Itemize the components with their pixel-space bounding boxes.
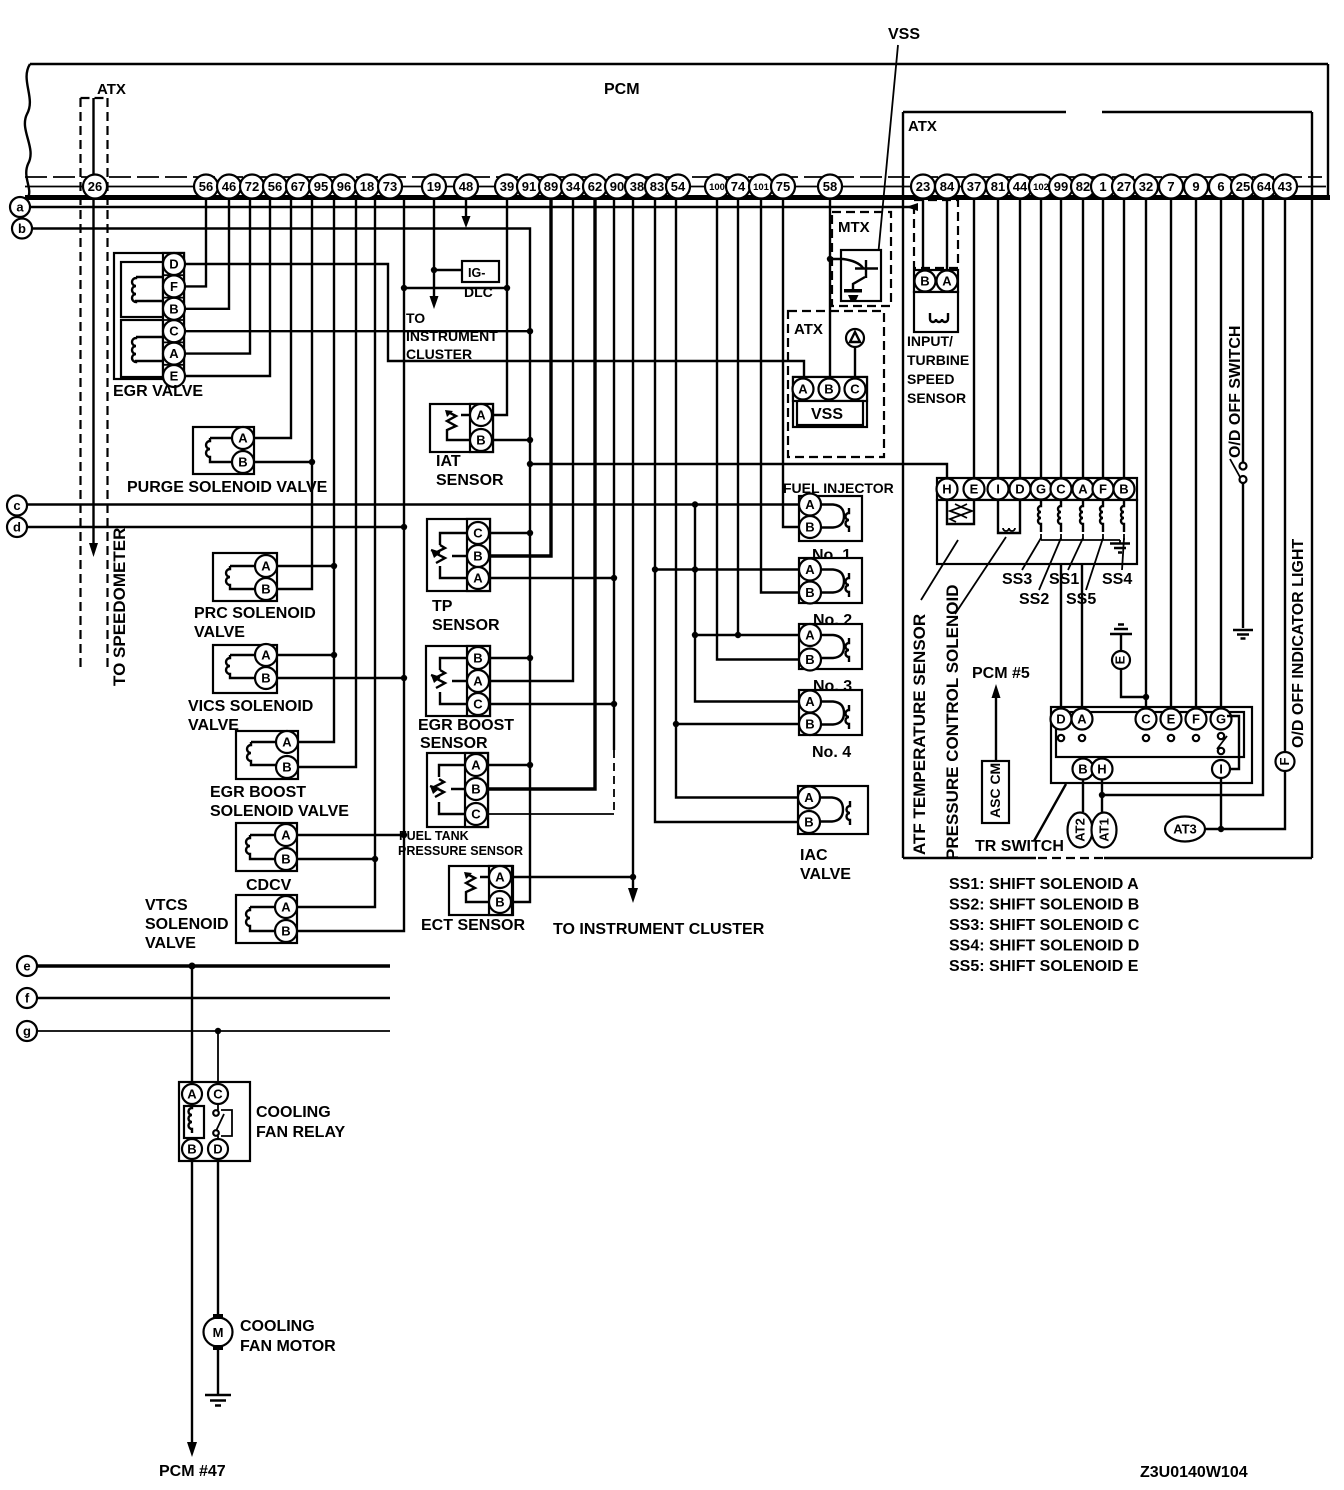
svg-text:46: 46 xyxy=(222,179,236,194)
wire f xyxy=(37,997,390,999)
junction on v530 at 464 xyxy=(527,461,533,467)
svg-text:FUEL TANK: FUEL TANK xyxy=(399,829,469,843)
svg-text:PRC SOLENOID: PRC SOLENOID xyxy=(194,605,316,622)
svg-text:IG-: IG- xyxy=(468,266,485,280)
fuel tank pressure sensor xyxy=(427,753,488,827)
svg-text:B: B xyxy=(473,549,482,564)
junction CDCV B xyxy=(372,856,378,862)
pin 64 xyxy=(1252,175,1276,199)
svg-text:B: B xyxy=(282,760,291,775)
svg-text:AT3: AT3 xyxy=(1173,822,1197,837)
junction inj2 A on v655 xyxy=(652,566,658,572)
pin 44 xyxy=(1008,175,1032,199)
leader SS3 xyxy=(1022,538,1041,570)
svg-text:1: 1 xyxy=(1099,179,1106,194)
svg-text:95: 95 xyxy=(314,179,328,194)
svg-text:A: A xyxy=(169,346,179,361)
svg-text:PURGE SOLENOID VALVE: PURGE SOLENOID VALVE xyxy=(127,479,328,496)
connector g circle xyxy=(17,1021,37,1041)
ground (O/D off switch) xyxy=(1233,630,1253,639)
svg-text:PRESSURE SENSOR: PRESSURE SENSOR xyxy=(398,844,523,858)
wire IAC B to v655 xyxy=(655,199,798,822)
pin 9 xyxy=(1184,175,1208,199)
PCM torn left edge squiggle xyxy=(25,64,31,199)
shift solenoid coil SSe xyxy=(1121,500,1124,532)
svg-text:C: C xyxy=(471,807,481,822)
wire CDCV B xyxy=(297,858,375,860)
IG-DLC box xyxy=(462,261,499,282)
svg-text:EGR BOOST: EGR BOOST xyxy=(418,717,514,734)
wire TR H to AT1 and H-line xyxy=(1102,199,1263,812)
svg-text:MTX: MTX xyxy=(838,219,870,236)
svg-text:73: 73 xyxy=(383,179,397,194)
svg-text:ASC CM: ASC CM xyxy=(987,763,1003,818)
input/turbine speed sensor xyxy=(914,270,958,332)
connector b circle xyxy=(12,219,32,239)
wire v206 pin56 to EGR F xyxy=(184,199,206,286)
wire inj1 B to v783 xyxy=(783,199,799,527)
svg-text:84: 84 xyxy=(940,179,955,194)
bus line mid xyxy=(25,186,1326,188)
svg-text:PRESSURE CONTROL SOLENOID: PRESSURE CONTROL SOLENOID xyxy=(943,585,962,861)
pin 75 xyxy=(771,175,795,199)
connector e circle xyxy=(17,956,37,976)
svg-text:ATX: ATX xyxy=(908,118,937,135)
svg-text:48: 48 xyxy=(459,179,473,194)
wire CDCV A xyxy=(297,834,404,836)
wire pin82 to ATF A xyxy=(1082,199,1084,478)
svg-text:A: A xyxy=(281,828,291,843)
svg-text:VSS: VSS xyxy=(888,26,920,43)
wire relay D to motor xyxy=(217,1159,219,1318)
EGR valve xyxy=(114,253,184,379)
connector c circle xyxy=(7,496,27,516)
pin 100 xyxy=(705,175,729,199)
pin 91 xyxy=(517,175,541,199)
wire EGRB sensor B xyxy=(489,657,530,659)
CDCV xyxy=(236,823,297,871)
svg-text:18: 18 xyxy=(360,179,374,194)
junction PRC A xyxy=(331,563,337,569)
svg-text:26: 26 xyxy=(88,179,102,194)
wire pin27 to ATF B xyxy=(1123,199,1125,478)
shift solenoid common rail to ground xyxy=(1041,534,1124,543)
pin 101 xyxy=(749,175,773,199)
svg-text:A: A xyxy=(805,694,815,709)
junction purge B xyxy=(309,459,315,465)
svg-text:B: B xyxy=(1078,762,1087,777)
ground (indicator E) xyxy=(1110,625,1132,635)
pin 27 xyxy=(1112,175,1136,199)
wire IAT A to v507 xyxy=(492,199,507,415)
svg-text:A: A xyxy=(805,628,815,643)
svg-text:Z3U0140W104: Z3U0140W104 xyxy=(1140,1464,1248,1481)
svg-text:99: 99 xyxy=(1054,179,1068,194)
svg-text:89: 89 xyxy=(544,179,558,194)
EGR boost solenoid valve xyxy=(236,731,298,779)
svg-text:44: 44 xyxy=(1013,179,1028,194)
svg-text:A: A xyxy=(261,559,271,574)
svg-text:9: 9 xyxy=(1192,179,1199,194)
wire v695 injector common xyxy=(695,505,799,702)
svg-text:G: G xyxy=(1036,482,1046,497)
junction CDCV A xyxy=(401,832,407,838)
IAT sensor xyxy=(430,404,493,452)
svg-text:B: B xyxy=(187,1142,196,1157)
pin 82 xyxy=(1071,175,1095,199)
TR switch xyxy=(1051,707,1253,783)
junction EGRB C on v614 xyxy=(611,701,617,707)
cooling fan relay xyxy=(179,1082,250,1161)
svg-text:B: B xyxy=(281,924,290,939)
wire ATF A to TR A xyxy=(1081,564,1083,708)
wire b to vertical 530 xyxy=(32,229,530,903)
svg-text:H: H xyxy=(1097,762,1106,777)
wire inj2 A xyxy=(655,568,799,570)
svg-text:EGR BOOST: EGR BOOST xyxy=(210,784,306,801)
svg-text:e: e xyxy=(23,959,30,974)
AT1 oval xyxy=(1092,813,1117,848)
svg-text:SS1: SS1 xyxy=(1049,571,1079,588)
pin 39 xyxy=(495,175,519,199)
wire VICS B xyxy=(277,677,404,679)
svg-text:7: 7 xyxy=(1167,179,1174,194)
shift solenoid coil SSa xyxy=(1038,500,1041,532)
svg-text:54: 54 xyxy=(671,179,686,194)
svg-text:c: c xyxy=(13,498,20,513)
svg-text:90: 90 xyxy=(610,179,624,194)
svg-text:6: 6 xyxy=(1217,179,1224,194)
svg-text:TO INSTRUMENT CLUSTER: TO INSTRUMENT CLUSTER xyxy=(553,921,765,938)
wire v633 to instrument cluster with arrow xyxy=(632,199,634,890)
pin 1 xyxy=(1091,175,1115,199)
wire v334 pin96 PRC A / VICS A / EGR boost SV A xyxy=(298,199,334,742)
junction VICS B xyxy=(401,675,407,681)
svg-text:I: I xyxy=(996,482,1000,497)
svg-text:A: A xyxy=(805,562,815,577)
VSS connector xyxy=(793,377,868,427)
pin 83 xyxy=(645,175,669,199)
input/turbine speed sensor cable dashed xyxy=(914,200,958,268)
leader pressure control solenoid xyxy=(955,537,1006,614)
pin 56b xyxy=(263,175,287,199)
wire TR I down xyxy=(1220,778,1222,829)
svg-text:PCM: PCM xyxy=(604,81,640,98)
fuel injector No.2 xyxy=(799,558,862,604)
junction IAT B on v530 xyxy=(527,437,533,443)
VSS leader wire xyxy=(877,45,898,267)
ATF temperature sensor element xyxy=(947,500,974,524)
wire v434 pin19 to IG-DLC xyxy=(433,199,435,298)
wire pin43 to indicator lamp xyxy=(1284,199,1286,752)
svg-text:F: F xyxy=(170,279,178,294)
ATX dashed box (VSS) xyxy=(788,311,884,457)
pin 7 xyxy=(1159,175,1183,199)
PRC solenoid valve xyxy=(213,553,277,601)
svg-text:TO: TO xyxy=(406,310,425,326)
svg-text:B: B xyxy=(281,852,290,867)
pin 58 xyxy=(818,175,842,199)
junction H line xyxy=(1099,792,1105,798)
junction h288 left xyxy=(401,285,407,291)
wire pin6 to TR G xyxy=(1220,199,1222,708)
svg-text:SENSOR: SENSOR xyxy=(420,735,488,752)
pin 67 xyxy=(286,175,310,199)
arrow to PCM #5 xyxy=(995,696,997,761)
wire indicator to ground xyxy=(1120,634,1122,651)
pin 38 xyxy=(625,175,649,199)
svg-text:67: 67 xyxy=(291,179,305,194)
svg-text:A: A xyxy=(187,1087,197,1102)
wire pin25 to O/D off switch xyxy=(1242,199,1244,462)
cooling fan motor xyxy=(204,1314,233,1350)
wire VICS A xyxy=(277,654,334,656)
svg-text:27: 27 xyxy=(1117,179,1131,194)
svg-text:AT1: AT1 xyxy=(1097,818,1112,842)
svg-text:A: A xyxy=(804,790,814,805)
pin 54 xyxy=(666,175,690,199)
svg-text:C: C xyxy=(1141,712,1151,727)
svg-text:ATF TEMPERATURE SENSOR: ATF TEMPERATURE SENSOR xyxy=(910,614,929,855)
IAC valve xyxy=(798,786,868,834)
svg-text:A: A xyxy=(282,735,292,750)
svg-text:SOLENOID VALVE: SOLENOID VALVE xyxy=(210,803,349,820)
svg-text:SS2: SS2 xyxy=(1019,591,1049,608)
svg-text:72: 72 xyxy=(245,179,259,194)
wire v404 to VTCS B xyxy=(297,199,404,931)
junction c-rail v695 xyxy=(692,501,698,507)
svg-text:39: 39 xyxy=(500,179,514,194)
shift solenoid coil SSb xyxy=(1058,500,1061,532)
wire EGR C xyxy=(184,330,530,332)
svg-text:TR SWITCH: TR SWITCH xyxy=(975,838,1064,855)
wire inj3 A xyxy=(695,634,799,636)
wire ECT A xyxy=(511,876,633,878)
wire inj4 B xyxy=(676,723,799,725)
svg-text:DLC: DLC xyxy=(464,284,493,300)
junction e-line relay feed xyxy=(189,963,196,970)
svg-text:D: D xyxy=(1015,482,1024,497)
wire g-line to relay C xyxy=(217,1031,219,1083)
leader SS1 xyxy=(1068,538,1083,570)
fuel injector No.4 xyxy=(799,690,862,735)
svg-text:C: C xyxy=(1056,482,1066,497)
wire inj2 B to v761 xyxy=(761,199,799,593)
svg-text:VALVE: VALVE xyxy=(188,717,239,734)
svg-text:SENSOR: SENSOR xyxy=(432,617,500,634)
svg-text:SS5: SHIFT SOLENOID E: SS5: SHIFT SOLENOID E xyxy=(949,958,1139,975)
svg-text:EGR VALVE: EGR VALVE xyxy=(113,383,203,400)
AT2 oval xyxy=(1068,813,1093,848)
svg-text:COOLING: COOLING xyxy=(256,1104,331,1121)
wire motor to ground xyxy=(217,1350,219,1394)
svg-text:A: A xyxy=(942,274,952,289)
MTX dashed box xyxy=(832,212,891,306)
pin 37 xyxy=(962,175,986,199)
svg-text:VSS: VSS xyxy=(811,406,843,423)
svg-text:ATX: ATX xyxy=(794,321,823,338)
junction TP A on v614 xyxy=(611,575,617,581)
svg-text:C: C xyxy=(473,697,483,712)
junction ground branch xyxy=(1143,694,1149,700)
wire IAT B xyxy=(492,439,530,441)
junction FTP A on v530 xyxy=(527,762,533,768)
svg-text:M: M xyxy=(213,1325,224,1340)
wire circled A to VSS C xyxy=(854,347,856,379)
svg-text:E: E xyxy=(170,369,179,384)
svg-text:SS4: SHIFT SOLENOID D: SS4: SHIFT SOLENOID D xyxy=(949,938,1139,955)
svg-text:H: H xyxy=(942,482,951,497)
junction g-line relay feed xyxy=(215,1028,221,1034)
wire pin84 to turbine A xyxy=(946,199,948,270)
wire c injector supply rail xyxy=(27,503,800,505)
svg-text:B: B xyxy=(473,651,482,666)
wire v312 pin95 purge B / PRC B xyxy=(277,199,312,589)
leader TR switch xyxy=(1034,784,1066,841)
MTX switch xyxy=(830,259,878,278)
svg-text:A: A xyxy=(798,382,808,397)
fuel injector No.3 xyxy=(799,624,862,671)
svg-text:A: A xyxy=(805,497,815,512)
svg-text:SENSOR: SENSOR xyxy=(436,472,504,489)
svg-text:C: C xyxy=(850,382,860,397)
svg-text:COOLING: COOLING xyxy=(240,1318,315,1335)
connector f circle xyxy=(17,988,37,1008)
wire TP C xyxy=(489,532,530,534)
wire FTP B to v595 xyxy=(487,199,595,789)
svg-text:F: F xyxy=(1277,757,1292,765)
svg-text:B: B xyxy=(471,782,480,797)
shift solenoid coil SSd xyxy=(1100,500,1103,532)
PCM right edge xyxy=(1327,64,1329,197)
svg-text:43: 43 xyxy=(1278,179,1292,194)
wire v269 pin56b to EGR E xyxy=(184,199,270,376)
svg-text:A: A xyxy=(1077,712,1087,727)
svg-text:a: a xyxy=(16,200,24,215)
leader ATF temperature sensor xyxy=(921,540,958,600)
svg-text:VICS SOLENOID: VICS SOLENOID xyxy=(188,698,313,715)
wire v227 pin46 to EGR B xyxy=(184,199,229,309)
wire pin1 to ATF F xyxy=(1102,199,1104,478)
pin 81 xyxy=(986,175,1010,199)
wire v614 xyxy=(613,199,615,750)
wire v375 pin73 to VTCS A xyxy=(297,199,375,907)
wire d xyxy=(27,526,404,528)
svg-text:VALVE: VALVE xyxy=(194,624,245,641)
connector a circle xyxy=(10,197,30,217)
svg-text:ATX: ATX xyxy=(97,81,126,98)
pin 99 xyxy=(1049,175,1073,199)
svg-text:B: B xyxy=(804,815,813,830)
wire pin102 to ATF G xyxy=(1040,199,1042,478)
svg-text:SS2: SHIFT SOLENOID B: SS2: SHIFT SOLENOID B xyxy=(949,897,1139,914)
svg-text:C: C xyxy=(213,1087,223,1102)
svg-text:81: 81 xyxy=(991,179,1005,194)
wire v355 pin18 to EGR boost SV B xyxy=(298,199,356,767)
svg-text:G: G xyxy=(1216,712,1226,727)
connector d circle xyxy=(7,517,27,537)
pin 34 xyxy=(561,175,585,199)
wire relay B to PCM #47 xyxy=(191,1159,193,1444)
svg-text:A: A xyxy=(261,648,271,663)
pin 62 xyxy=(583,175,607,199)
svg-text:CDCV: CDCV xyxy=(246,877,292,894)
svg-text:ECT SENSOR: ECT SENSOR xyxy=(421,917,525,934)
svg-text:SS3: SHIFT SOLENOID C: SS3: SHIFT SOLENOID C xyxy=(949,917,1140,934)
svg-text:B: B xyxy=(805,520,814,535)
wire EGRB sensor A to v573 xyxy=(489,199,573,681)
fuel injector No.1 xyxy=(799,494,862,542)
svg-text:D: D xyxy=(169,257,178,272)
svg-text:B: B xyxy=(1119,482,1128,497)
circled E indicator xyxy=(1112,651,1130,669)
svg-text:74: 74 xyxy=(731,179,746,194)
pin 96 xyxy=(332,175,356,199)
svg-text:F: F xyxy=(1192,712,1200,727)
pin 19 xyxy=(422,175,446,199)
wire v249 pin72 to EGR A xyxy=(184,199,250,354)
svg-text:64: 64 xyxy=(1257,179,1272,194)
junction MTX switch tap xyxy=(827,256,833,262)
svg-text:75: 75 xyxy=(776,179,790,194)
svg-text:A: A xyxy=(471,758,481,773)
wire to ATF H from v530 xyxy=(530,464,947,478)
wire TP A xyxy=(489,577,614,579)
junction inj3 A on v738 xyxy=(735,632,741,638)
bus line main thick xyxy=(25,195,1330,200)
svg-text:91: 91 xyxy=(522,179,536,194)
svg-text:f: f xyxy=(25,991,30,1006)
svg-text:56: 56 xyxy=(268,179,282,194)
svg-text:83: 83 xyxy=(650,179,664,194)
svg-text:B: B xyxy=(169,301,178,316)
svg-text:E: E xyxy=(970,482,979,497)
svg-text:d: d xyxy=(13,520,21,535)
wire pin23 to turbine B xyxy=(922,199,924,270)
ground (cooling fan motor) xyxy=(205,1395,231,1406)
wire e-line to relay A xyxy=(191,966,193,1083)
junction AT3 line xyxy=(1218,826,1224,832)
wire inj3 B to v717 xyxy=(717,199,799,660)
svg-text:101: 101 xyxy=(753,182,770,193)
pin 84 xyxy=(935,175,959,199)
svg-text:25: 25 xyxy=(1236,179,1250,194)
ATX big box (right) xyxy=(903,112,1312,858)
svg-text:SS4: SS4 xyxy=(1102,571,1132,588)
MTX switch box xyxy=(841,250,881,301)
wire pin9 to TR F xyxy=(1195,199,1197,708)
wire IG-DLC xyxy=(434,269,462,271)
svg-text:VALVE: VALVE xyxy=(800,866,851,883)
svg-text:82: 82 xyxy=(1076,179,1090,194)
pin 56 xyxy=(194,175,218,199)
pin 25 xyxy=(1231,175,1255,199)
svg-text:19: 19 xyxy=(427,179,441,194)
svg-text:102: 102 xyxy=(1033,182,1049,193)
wire v466 pin48 stub arrow xyxy=(465,199,467,218)
svg-text:FAN RELAY: FAN RELAY xyxy=(256,1124,346,1141)
junction v695 inj2 A xyxy=(692,566,698,572)
wire pin37 to ATF E xyxy=(973,199,975,478)
pin 26 xyxy=(83,175,107,199)
svg-text:TO SPEEDOMETER: TO SPEEDOMETER xyxy=(110,528,129,686)
pin 6 xyxy=(1209,175,1233,199)
svg-text:34: 34 xyxy=(566,179,581,194)
junction v695 inj3 A xyxy=(692,632,698,638)
AT3 oval xyxy=(1165,817,1205,842)
svg-text:62: 62 xyxy=(588,179,602,194)
TP sensor xyxy=(427,519,490,591)
